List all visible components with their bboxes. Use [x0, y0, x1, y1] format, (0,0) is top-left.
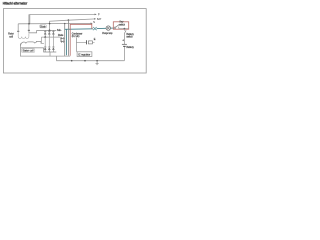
junction N line / diode feed — [49, 23, 51, 25]
terminal label N — [93, 20, 95, 24]
svg-text:Stator coil: Stator coil — [22, 50, 33, 53]
key switch S1 — [114, 25, 128, 29]
wire brush to rectifier — [29, 30, 37, 32]
label battery switch — [126, 33, 134, 39]
svg-text:Diode: Diode — [58, 34, 64, 37]
highlight box key switch (red) — [113, 22, 128, 29]
terminal label F — [98, 13, 100, 17]
diode D3 — [52, 30, 55, 37]
connector on lamp wire — [93, 27, 97, 30]
label battery — [126, 46, 134, 49]
wire brush lead right — [28, 14, 30, 33]
junction lower bus mid — [84, 60, 86, 62]
wire brush lead left — [17, 24, 19, 32]
label sub-diode — [57, 29, 64, 37]
rectifier bottom bus — [44, 48, 57, 56]
wire stator bottom — [20, 47, 43, 49]
svg-text:(0.2 µF): (0.2 µF) — [72, 35, 80, 38]
svg-text:Battery: Battery — [126, 46, 134, 49]
stator coil winding — [20, 41, 44, 47]
diode D5 — [48, 47, 51, 52]
phase bus mid — [41, 36, 60, 38]
wire battery branch — [123, 29, 125, 61]
sub-diode SD2 — [60, 37, 64, 43]
junction BAT/down-wire — [68, 19, 70, 21]
terminal label BAT — [97, 17, 102, 21]
label diode with box — [40, 25, 47, 29]
border frame — [3, 9, 146, 73]
label condenser — [72, 32, 83, 38]
diode D4 — [44, 47, 47, 52]
svg-text:switch: switch — [126, 36, 133, 39]
rotor coil winding — [18, 32, 29, 39]
battery B1 — [122, 44, 127, 46]
wire BAT down vertical — [67, 20, 69, 56]
IC regulator box — [77, 52, 92, 57]
highlight box condenser (red) — [70, 24, 92, 55]
sub-diode SD1 — [60, 37, 64, 39]
junction F-wire / N line — [28, 23, 30, 25]
svg-text:Sub-: Sub- — [57, 29, 62, 32]
svg-text:Diode: Diode — [40, 25, 46, 28]
diode D2 — [48, 30, 51, 37]
background — [0, 0, 150, 79]
svg-text:N: N — [93, 20, 95, 24]
wire lamp teal line — [65, 28, 115, 29]
label rotor coil — [8, 33, 14, 39]
svg-text:Charge lamp: Charge lamp — [102, 31, 113, 35]
rectifier top bus — [37, 30, 57, 32]
junction lower bus left — [71, 60, 73, 62]
svg-text:BAT: BAT — [97, 17, 102, 21]
wire condenser feed vertical — [75, 38, 77, 52]
label key switch — [119, 20, 126, 26]
phase drop wires — [45, 37, 53, 47]
svg-text:Hitachi alternator: Hitachi alternator — [3, 1, 28, 6]
wire lower bus — [20, 48, 124, 61]
wire F line — [30, 14, 97, 24]
diode D6 — [52, 47, 55, 52]
label charge lamp — [102, 31, 113, 35]
svg-text:IC regulator: IC regulator — [78, 54, 90, 57]
capacitor C1 — [76, 40, 94, 44]
terminal label E — [94, 38, 96, 41]
wire stator to phase bus — [40, 37, 42, 43]
title text "Hitachi alternator" — [3, 1, 28, 6]
battery switch S2 — [124, 30, 126, 33]
wire BAT line — [50, 18, 96, 30]
ground — [96, 60, 99, 65]
junction N line / E wire — [64, 23, 65, 24]
diode D1 — [44, 30, 47, 37]
wire E vertical — [64, 24, 66, 57]
wire teal drop — [66, 29, 68, 55]
wire N line — [18, 23, 92, 25]
svg-text:switch: switch — [119, 23, 126, 26]
battery plus sign — [122, 39, 124, 41]
charge lamp — [106, 26, 110, 30]
label stator coil — [21, 49, 34, 53]
svg-text:coil: coil — [9, 35, 13, 38]
junction battery top — [124, 28, 126, 30]
